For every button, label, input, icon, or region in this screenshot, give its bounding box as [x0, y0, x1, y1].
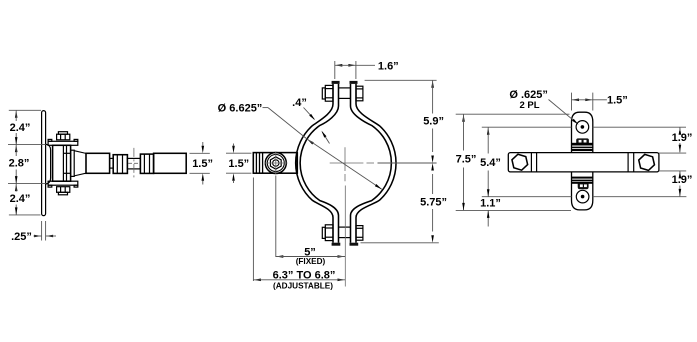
svg-text:1.9”: 1.9” — [672, 132, 693, 144]
bar right hex nut — [639, 154, 655, 170]
band right top cap — [350, 81, 358, 84]
dimension 5 fixed — [276, 255, 284, 258]
extension line top hole center — [482, 126, 572, 128]
svg-text:(FIXED): (FIXED) — [296, 257, 326, 266]
svg-text:2 PL: 2 PL — [519, 100, 539, 111]
strap bottom washer stack — [571, 177, 593, 179]
strap top washer stack — [571, 143, 593, 146]
svg-text:2.4”: 2.4” — [10, 122, 31, 134]
svg-text:Ø 6.625”: Ø 6.625” — [218, 102, 263, 114]
socket center hole — [273, 160, 279, 166]
svg-text:1.1”: 1.1” — [480, 197, 501, 209]
wall plate (left view) — [42, 111, 46, 216]
dimension 1.6 bolt tabs — [334, 61, 336, 79]
pipe clamp band right half — [351, 84, 397, 243]
svg-text:.4”: .4” — [292, 97, 307, 109]
clamp bottom washer — [58, 192, 67, 195]
dimension 5.9 — [431, 80, 434, 88]
top bolt head cap — [322, 88, 325, 99]
band right bottom cap — [350, 243, 359, 246]
clamp bottom hex nut — [57, 187, 70, 193]
dimension 5.4 — [487, 127, 490, 135]
adjusting nut left — [113, 155, 127, 174]
svg-text:(ADJUSTABLE): (ADJUSTABLE) — [273, 281, 333, 290]
svg-text:7.5”: 7.5” — [456, 153, 477, 165]
bar right separator lines — [627, 153, 629, 172]
extension line 7.5 bottom — [456, 209, 571, 211]
band left bottom cap — [332, 243, 341, 246]
bar left separator lines — [530, 153, 532, 172]
dimension 2.8 — [15, 145, 18, 153]
U-bracket hook on plate — [46, 144, 51, 184]
socket boss outer circle — [265, 153, 286, 174]
pipe centerline vertical — [344, 147, 346, 171]
cross bar front view — [508, 153, 659, 172]
arm stub — [110, 158, 114, 168]
svg-text:1.6”: 1.6” — [378, 61, 399, 73]
svg-text:2.4”: 2.4” — [10, 193, 31, 205]
extension lines left view — [9, 109, 41, 111]
bottom bolt shank — [339, 226, 351, 228]
clamp top flange — [48, 141, 78, 145]
dimension 5.75 — [431, 163, 434, 171]
svg-text:1.5”: 1.5” — [607, 95, 628, 107]
extension line 7.5 top — [456, 113, 570, 115]
strap top nut — [576, 138, 589, 143]
strap bottom nut — [578, 184, 589, 190]
svg-text:5.9”: 5.9” — [423, 116, 444, 128]
top bolt nut right — [356, 86, 363, 101]
dimension 1.1 — [487, 210, 489, 226]
dimension 2.4 bottom — [15, 184, 18, 192]
dimension 1.5 arm height — [190, 152, 210, 154]
bottom bolt nut right — [356, 226, 363, 241]
top bolt shank — [339, 87, 351, 89]
dimension 6.3 to 6.8 adjustable — [253, 279, 261, 282]
adjusting nut right — [140, 154, 153, 173]
socket body — [253, 153, 297, 174]
socket crosshair — [265, 162, 288, 164]
svg-text:1.9”: 1.9” — [672, 174, 693, 186]
extension line bar top right — [659, 152, 686, 154]
strap top hole — [576, 121, 589, 134]
strap front view — [572, 112, 593, 210]
pipe clamp band left half — [296, 84, 339, 243]
extension line 5.9 top — [365, 79, 437, 81]
svg-text:1.5”: 1.5” — [192, 158, 213, 170]
band left top cap — [332, 81, 340, 84]
clamp body block — [53, 145, 71, 181]
dimension 1.5 strap width — [571, 93, 573, 111]
bottom bolt head cap — [322, 227, 325, 238]
socket hex socket — [270, 157, 281, 169]
svg-text:6.3” TO 6.8”: 6.3” TO 6.8” — [273, 270, 336, 282]
dimension .25 plate thickness — [41, 221, 43, 241]
svg-text:5.4”: 5.4” — [480, 157, 501, 169]
rod centerline — [133, 148, 135, 178]
extension line bar bottom right — [659, 170, 686, 172]
dimension 1.9 upper — [679, 127, 682, 135]
bar left hex nut — [512, 154, 528, 170]
dimension 7.5 — [462, 114, 465, 122]
threaded rod — [127, 158, 140, 169]
dimension 1.9 lower — [679, 171, 682, 179]
svg-text:1.5”: 1.5” — [228, 158, 249, 170]
arm cylinder right — [154, 153, 187, 173]
arm cylinder left — [86, 153, 110, 173]
clamp bottom flange — [48, 181, 78, 185]
top bolt hex head — [325, 85, 333, 101]
socket boss inner circle — [267, 155, 284, 172]
strap bottom hole — [576, 190, 589, 203]
svg-text:5.75”: 5.75” — [420, 197, 447, 209]
socket collar lines — [255, 153, 257, 174]
clamp top washer — [58, 132, 67, 135]
extension line center right — [378, 162, 437, 164]
pipe centerline horizontal — [330, 162, 364, 164]
svg-text:.25”: .25” — [11, 231, 32, 243]
dimension 2.4 top — [15, 110, 18, 118]
bottom bolt hex head — [325, 225, 333, 241]
extension line 5.75 bottom — [361, 242, 439, 244]
extension line socket center below — [275, 176, 277, 258]
extension line socket left below — [252, 178, 254, 282]
clamp top hex nut — [57, 134, 70, 140]
svg-text:2.8”: 2.8” — [9, 157, 30, 169]
dimension 1.5 socket height — [226, 152, 251, 154]
extension line bottom hole center — [482, 196, 572, 198]
arm collar and taper — [71, 150, 75, 176]
